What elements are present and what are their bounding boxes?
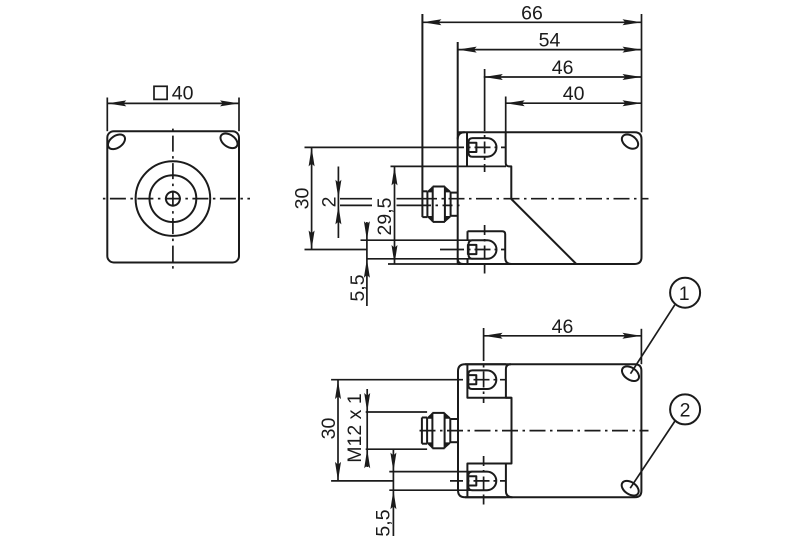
screw centerline vertical bottom view2 <box>484 225 486 274</box>
svg-text:2: 2 <box>318 197 340 208</box>
svg-text:46: 46 <box>552 316 574 338</box>
step line y166 view2 <box>391 165 507 167</box>
corner oval top view3 <box>619 363 641 384</box>
slot arm top bottom-clamp view3 <box>389 471 472 473</box>
corner oval view2 <box>619 132 641 152</box>
body outline view1 <box>107 131 239 262</box>
screw slot stadium bottom view2 <box>469 240 497 259</box>
M12 connector view2 <box>422 14 457 222</box>
dimension 66 view2 <box>422 2 641 132</box>
screw centerline horizontal top view3 <box>331 379 506 381</box>
screw slot stadium top view2 <box>469 138 497 157</box>
screw slot stadium bottom view3 <box>468 472 496 491</box>
svg-text:54: 54 <box>539 30 561 52</box>
centerline horizontal view1 <box>99 198 250 200</box>
svg-text:46: 46 <box>552 57 574 79</box>
bracket top-left fillet view2 <box>458 132 465 139</box>
sensing face line view2 <box>457 42 459 264</box>
svg-text:40: 40 <box>563 83 585 105</box>
svg-text:29,5: 29,5 <box>374 197 396 235</box>
dimension 29,5 view2 <box>374 166 398 264</box>
clamp pocket top view3 <box>467 364 511 398</box>
screw centerline vertical bottom view3 <box>483 456 485 505</box>
svg-text:2: 2 <box>680 400 691 422</box>
dimension 5,5 view2 <box>347 221 370 306</box>
dimension 30 view3 <box>318 380 341 481</box>
sensing face circle outer view1 <box>136 161 211 236</box>
dimension 2 view2 <box>318 167 341 239</box>
main centerline view3 <box>417 430 649 432</box>
dimension square-40 label <box>154 82 194 104</box>
slot arm bottom bottom-clamp view2 <box>367 258 473 260</box>
dimension 5,5 view3 <box>373 450 397 537</box>
svg-text:1: 1 <box>679 283 690 305</box>
slot arm top bottom-clamp view2 <box>361 239 473 241</box>
dimension 40 view2 <box>506 83 642 132</box>
svg-text:40: 40 <box>172 82 194 104</box>
dimension square-40 extension lines <box>107 98 239 132</box>
dimension M12x1 view3 <box>344 389 427 468</box>
dimension 46 view3 <box>484 316 642 364</box>
screw centerline horizontal top view2 <box>305 146 506 148</box>
svg-text:66: 66 <box>521 2 543 24</box>
clamp pocket bottom view3 <box>467 464 511 498</box>
main centerline view2 <box>340 198 649 200</box>
body bottom extension view2 <box>388 263 458 265</box>
screw slot notch top view2 <box>468 143 477 152</box>
M12 connector view3 <box>422 412 458 448</box>
svg-text:30: 30 <box>292 188 314 210</box>
svg-text:M12 x 1: M12 x 1 <box>344 393 366 462</box>
body outline view3 <box>465 364 641 497</box>
screw centerline vertical top view3 <box>483 328 485 403</box>
mounting hole oval top-left view1 <box>105 131 127 152</box>
corner oval bottom view3 <box>619 478 641 499</box>
screw centerline vertical top view2 <box>484 69 486 172</box>
svg-text:5,5: 5,5 <box>373 509 395 536</box>
dimension square-40 line <box>107 102 239 104</box>
body left edge with connector boss view3 <box>506 364 513 497</box>
mounting hole oval top-right view1 <box>218 130 240 151</box>
bracket bottom view2 <box>468 231 512 264</box>
dimension 30 view2 <box>292 147 315 249</box>
screw slot notch bottom view2 <box>468 245 477 254</box>
balloon 1 <box>631 278 701 374</box>
sensing face circle middle view1 <box>150 175 197 222</box>
sensing face circle inner view1 <box>166 192 180 206</box>
body outline view2 <box>458 132 642 264</box>
screw slot stadium top view3 <box>468 370 496 389</box>
flange outline view3 <box>458 364 506 497</box>
clamp pocket edge bottom view2 <box>467 231 469 240</box>
slot arm bottom bottom-clamp view3 <box>389 489 472 491</box>
dimension square-40 arrows <box>107 100 239 106</box>
dimension 54 view2 <box>458 30 642 53</box>
svg-text:30: 30 <box>318 418 340 440</box>
balloon 2 <box>630 394 700 488</box>
screw centerline horizontal bottom view2 <box>305 249 506 251</box>
clamp bracket top view2 <box>506 132 577 264</box>
svg-text:5,5: 5,5 <box>347 274 369 301</box>
screw centerline horizontal bottom view3 <box>331 480 506 482</box>
dimension 46 view2 <box>484 57 642 80</box>
connector axis line view2 <box>340 204 462 206</box>
screw slot notch bottom view3 <box>468 476 477 485</box>
clamp pocket edge top view2 <box>466 133 468 166</box>
screw slot notch top view3 <box>468 375 477 384</box>
centerline vertical view1 <box>172 126 174 273</box>
body bottom-left fillet view2 <box>458 259 464 265</box>
